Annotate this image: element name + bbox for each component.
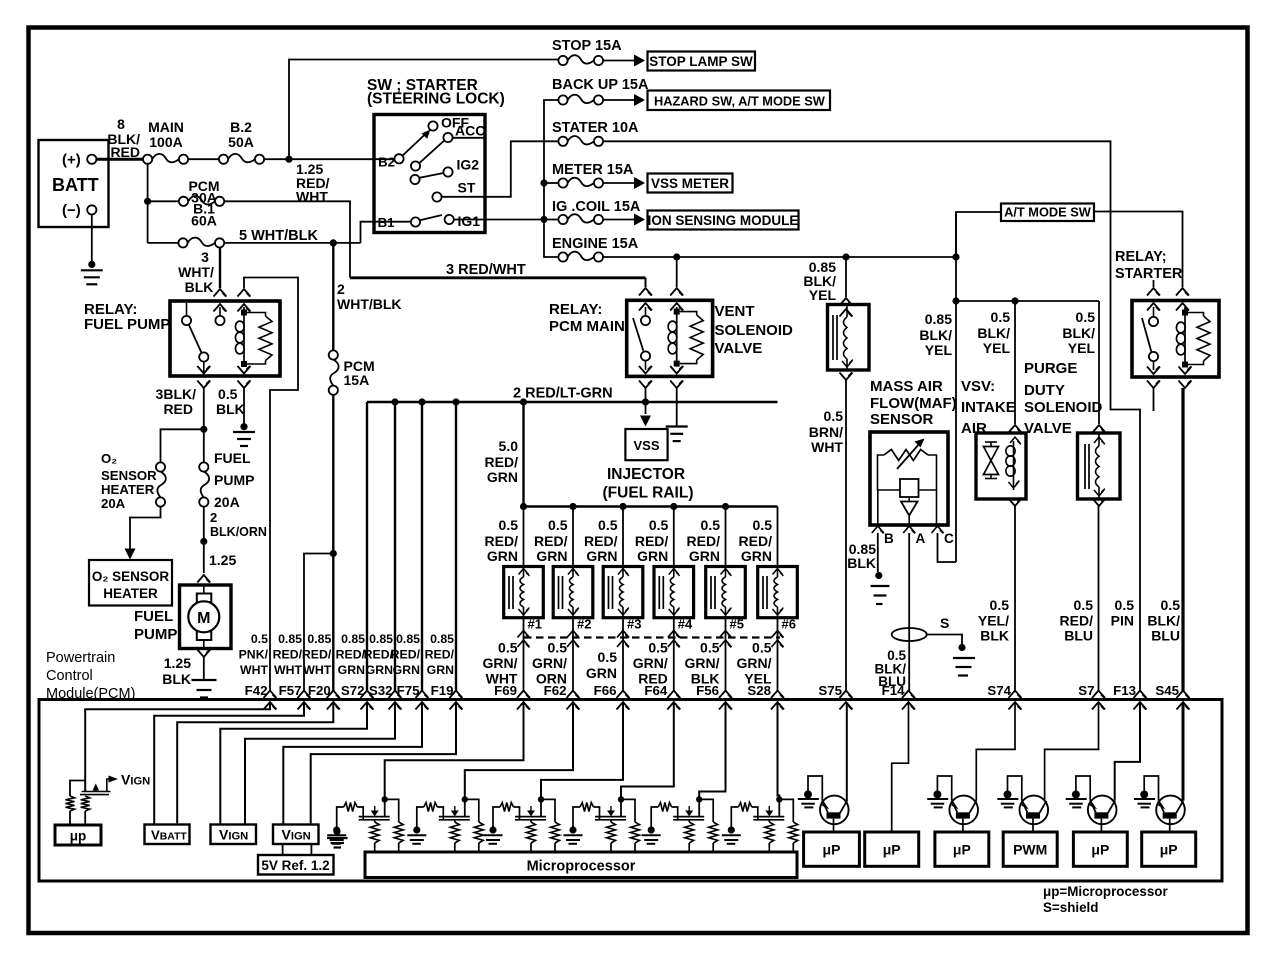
- svg-text:μp=Microprocessor: μp=Microprocessor: [1043, 884, 1168, 899]
- wire 2 WHT/BLK: [332, 243, 334, 351]
- svg-text:BLK: BLK: [980, 628, 1009, 644]
- resistor uP pullup left: [66, 796, 75, 811]
- svg-text:F20: F20: [308, 683, 331, 698]
- pin purge bottom: [1093, 499, 1106, 507]
- pin F62: [567, 691, 580, 699]
- svg-text:STOP LAMP SW: STOP LAMP SW: [649, 54, 753, 69]
- wire purge feed 0.5 BLK/YEL: [1098, 301, 1100, 424]
- wire 3 RED/WHT: [350, 276, 646, 279]
- svg-text:RED/: RED/: [364, 648, 394, 662]
- svg-text:RED/: RED/: [336, 648, 366, 662]
- svg-text:FLOW(MAF): FLOW(MAF): [870, 395, 957, 412]
- svg-text:2 RED/LT-GRN: 2 RED/LT-GRN: [513, 386, 613, 402]
- wire 0.5 RED/BLU to S7: [1098, 506, 1100, 691]
- svg-text:BLK/: BLK/: [1062, 325, 1095, 341]
- box STOP LAMP SW: [648, 52, 756, 71]
- junction vsv tap: [1011, 297, 1018, 304]
- wire F19 riser: [455, 402, 457, 691]
- svg-text:F13: F13: [1113, 683, 1136, 698]
- pin S28: [771, 691, 784, 699]
- pin S72: [361, 691, 374, 699]
- svg-text:μP: μP: [1160, 842, 1178, 858]
- svg-text:BLK: BLK: [216, 401, 245, 417]
- junction main feed node: [285, 156, 292, 163]
- svg-text:#4: #4: [678, 617, 693, 632]
- svg-text:GRN/: GRN/: [737, 655, 772, 671]
- svg-text:μP: μP: [1091, 842, 1109, 858]
- svg-text:μP: μP: [953, 842, 971, 858]
- svg-text:YEL/: YEL/: [978, 613, 1009, 629]
- svg-text:0.85: 0.85: [278, 632, 302, 646]
- svg-text:ST: ST: [458, 180, 476, 196]
- svg-text:Powertrain: Powertrain: [46, 650, 115, 666]
- box microprocessor output 4: [1003, 832, 1057, 866]
- svg-text:VSS: VSS: [633, 438, 659, 453]
- svg-text:VALVE: VALVE: [715, 340, 763, 357]
- svg-text:0.5: 0.5: [1074, 597, 1094, 613]
- svg-text:100A: 100A: [149, 134, 182, 150]
- svg-text:SENSOR: SENSOR: [870, 411, 934, 428]
- svg-text:0.5: 0.5: [1115, 597, 1135, 613]
- svg-text:8: 8: [117, 116, 125, 132]
- svg-text:WHT/: WHT/: [178, 264, 214, 280]
- svg-text:STOP 15A: STOP 15A: [552, 38, 622, 54]
- wire S32 internal: [245, 703, 395, 825]
- injector #1: [504, 567, 544, 618]
- pin F66: [617, 691, 630, 699]
- ground VIGN2: [333, 828, 340, 835]
- svg-text:GRN/: GRN/: [633, 655, 668, 671]
- wire motor to ground 1.25 BLK: [203, 657, 205, 680]
- wire F56 internal: [699, 703, 725, 797]
- pin S32: [389, 691, 402, 699]
- svg-text:HEATER: HEATER: [103, 586, 158, 601]
- svg-text:VALVE: VALVE: [1024, 420, 1072, 437]
- box HAZARD SW A/T MODE SW: [648, 91, 831, 111]
- svg-text:0.85: 0.85: [925, 311, 952, 327]
- svg-text:RED/: RED/: [485, 533, 519, 549]
- svg-text:BLK: BLK: [847, 555, 876, 571]
- svg-text:0.85: 0.85: [341, 632, 365, 646]
- svg-text:RED/: RED/: [302, 648, 332, 662]
- pin F13: [1134, 691, 1147, 699]
- ground fuel pump motor: [192, 679, 217, 681]
- ground MAF B: [875, 572, 882, 579]
- svg-text:HEATER: HEATER: [101, 482, 155, 497]
- svg-text:BLK/ORN: BLK/ORN: [210, 525, 267, 539]
- junction fuel pump node: [200, 538, 207, 545]
- svg-text:0.5: 0.5: [598, 517, 618, 533]
- svg-text:IG .COIL 15A: IG .COIL 15A: [552, 199, 641, 215]
- svg-text:GRN/: GRN/: [483, 655, 518, 671]
- wire injector 1 feed: [523, 507, 525, 567]
- wire 0.5 BLK/BLU to S45: [1181, 388, 1184, 691]
- relay starter coil: [1184, 307, 1186, 365]
- wire A/T mode sw left: [956, 212, 1001, 257]
- svg-text:DUTY: DUTY: [1024, 382, 1065, 399]
- svg-text:PCM MAIN: PCM MAIN: [549, 318, 625, 335]
- svg-text:μP: μP: [823, 842, 841, 858]
- svg-text:GRN: GRN: [338, 663, 365, 677]
- svg-text:1.25: 1.25: [164, 655, 191, 671]
- wire MAF B 0.85 BLK to ground: [877, 533, 879, 572]
- svg-text:FUEL PUMP: FUEL PUMP: [84, 316, 170, 333]
- svg-text:0.5: 0.5: [498, 640, 518, 656]
- wire fuel pump relay coil loop to F42: [244, 278, 298, 692]
- svg-text:μP: μP: [883, 842, 901, 858]
- switch symbol VIGN gate: [82, 791, 111, 793]
- pin fuel pump relay top right: [238, 289, 251, 297]
- wire S72 riser: [366, 402, 368, 691]
- svg-text:METER 15A: METER 15A: [552, 162, 634, 178]
- box VIGN 2: [273, 825, 319, 845]
- svg-text:0.5: 0.5: [548, 640, 568, 656]
- svg-text:S=shield: S=shield: [1043, 900, 1098, 915]
- pin S74: [1009, 691, 1022, 699]
- svg-text:SOLENOID: SOLENOID: [715, 322, 794, 339]
- pin MAF C: [932, 526, 944, 533]
- svg-text:Microprocessor: Microprocessor: [527, 859, 636, 875]
- resistor uP pullup right: [81, 796, 90, 811]
- wire VIGN2 to 5V ref: [282, 844, 284, 855]
- svg-text:S32: S32: [369, 683, 393, 698]
- wire S45 internal: [1182, 703, 1185, 801]
- svg-text:BLU: BLU: [1064, 628, 1093, 644]
- svg-text:0.5: 0.5: [499, 517, 519, 533]
- svg-text:WHT: WHT: [240, 663, 268, 677]
- wire A/T mode sw right to starter relay: [1094, 212, 1183, 288]
- svg-text:GRN: GRN: [637, 548, 668, 564]
- svg-text:M: M: [197, 610, 210, 627]
- wire IG1 to fuse bus: [454, 219, 559, 221]
- svg-text:GRN: GRN: [487, 469, 518, 485]
- wire F75 riser: [421, 402, 423, 691]
- pin pcm main relay top right: [670, 288, 683, 296]
- svg-text:0.5: 0.5: [218, 386, 238, 402]
- svg-text:3 RED/WHT: 3 RED/WHT: [446, 262, 526, 278]
- junction injector 4 tap: [670, 503, 677, 510]
- injector driver cell 6: [722, 796, 798, 852]
- svg-text:INJECTOR: INJECTOR: [607, 466, 685, 483]
- wire branch to F57: [304, 554, 333, 692]
- svg-text:MASS AIR: MASS AIR: [870, 378, 943, 395]
- wire injector 4 to PCM: [673, 618, 675, 691]
- svg-text:RELAY;: RELAY;: [1115, 249, 1167, 265]
- dashed fuel rail ganging line: [524, 636, 780, 638]
- svg-text:BLK: BLK: [162, 671, 191, 687]
- junction riser top: [520, 398, 527, 405]
- svg-text:μp: μp: [70, 829, 87, 844]
- wire F13 internal: [1115, 703, 1140, 801]
- svg-text:(FUEL RAIL): (FUEL RAIL): [603, 485, 694, 502]
- wire starter relay bottom left stub: [1153, 388, 1155, 411]
- svg-text:YEL: YEL: [983, 340, 1011, 356]
- pin MAF B: [872, 526, 884, 533]
- PCM box: [39, 700, 1222, 882]
- junction METER row: [540, 179, 547, 186]
- box microprocessor output 5: [1073, 832, 1127, 866]
- svg-text:IG1: IG1: [458, 213, 481, 229]
- relay starter box: [1132, 301, 1219, 378]
- svg-text:GRN: GRN: [487, 548, 518, 564]
- svg-text:HAZARD SW, A/T MODE SW: HAZARD SW, A/T MODE SW: [654, 94, 826, 109]
- svg-text:0.85: 0.85: [369, 632, 393, 646]
- svg-text:FUEL: FUEL: [134, 608, 173, 625]
- wire stub starter relay switch input: [1153, 280, 1155, 287]
- svg-text:S72: S72: [341, 683, 365, 698]
- svg-text:S45: S45: [1155, 683, 1179, 698]
- relay pcm main coil: [676, 307, 678, 365]
- wire MAIN fuse to B.2 fuse: [188, 158, 219, 160]
- svg-text:#3: #3: [627, 617, 641, 632]
- transistor Q S7: [997, 776, 1048, 832]
- svg-text:RED: RED: [110, 144, 140, 160]
- wire 3 WHT/BLK drop to fuel pump relay: [219, 248, 221, 289]
- pin fuel pump relay bottom right: [238, 366, 251, 374]
- junction F19 riser: [452, 398, 459, 405]
- pin F57: [298, 691, 311, 699]
- svg-text:BLK/: BLK/: [977, 325, 1010, 341]
- svg-text:S74: S74: [987, 683, 1011, 698]
- svg-text:20A: 20A: [214, 494, 240, 510]
- svg-text:B1: B1: [378, 215, 395, 230]
- svg-text:RED/: RED/: [391, 648, 421, 662]
- svg-text:WHT/BLK: WHT/BLK: [337, 296, 402, 312]
- pin solenoid bottom: [840, 373, 853, 381]
- svg-text:RED/: RED/: [584, 533, 618, 549]
- svg-text:0.85: 0.85: [396, 632, 420, 646]
- svg-text:0.5: 0.5: [1076, 309, 1096, 325]
- svg-text:SENSOR: SENSOR: [101, 468, 157, 483]
- wire F14 internal: [892, 703, 909, 832]
- svg-text:S7: S7: [1078, 683, 1094, 698]
- box A/T MODE SW: [1001, 204, 1094, 222]
- switch blade B1 open: [420, 215, 442, 220]
- transistor Q F13: [1066, 776, 1117, 832]
- junction O2 heater branch: [200, 426, 207, 433]
- svg-text:B: B: [884, 531, 894, 546]
- svg-text:2: 2: [210, 510, 217, 525]
- wire F66 internal: [541, 703, 623, 797]
- svg-text:BLK: BLK: [185, 279, 214, 295]
- wire injector 2 to PCM: [572, 618, 574, 691]
- pin fuel pump relay top left: [214, 289, 227, 297]
- svg-text:5.0: 5.0: [499, 438, 519, 454]
- wire injector 2 feed: [572, 507, 574, 567]
- wire 5 WHT/BLK: [224, 242, 360, 244]
- arrow to VSS: [645, 402, 647, 414]
- wire F75 internal: [283, 703, 422, 825]
- svg-text:1.25: 1.25: [209, 552, 236, 568]
- injector #3: [603, 567, 643, 618]
- wire BACK UP fuse to hazard sw: [603, 99, 634, 101]
- ground shield: [958, 644, 965, 651]
- switch blade D to ACC: [419, 141, 444, 164]
- svg-text:0.5: 0.5: [701, 517, 721, 533]
- switch blade E to IG2: [419, 173, 443, 178]
- svg-text:2: 2: [337, 281, 345, 297]
- wire vsv purge feed bus: [956, 300, 1099, 302]
- wire fuel pump relay switched output: [203, 388, 205, 462]
- ground battery: [88, 261, 95, 268]
- shield ellipse: [892, 628, 927, 641]
- svg-text:F56: F56: [696, 683, 719, 698]
- MAF amplifier triangle: [908, 497, 910, 501]
- svg-text:50A: 50A: [228, 134, 254, 150]
- svg-text:(STEERING LOCK): (STEERING LOCK): [367, 91, 505, 108]
- svg-text:15A: 15A: [344, 372, 370, 388]
- svg-text:0.5: 0.5: [700, 640, 720, 656]
- box 5V Ref 1.2: [258, 855, 334, 875]
- svg-text:PNK/: PNK/: [239, 648, 269, 662]
- svg-text:WHT: WHT: [303, 663, 331, 677]
- pin pcm main relay bottom right: [670, 366, 683, 374]
- relay fuel pump switch: [186, 303, 188, 316]
- svg-text:GRN: GRN: [689, 548, 720, 564]
- svg-text:#6: #6: [782, 617, 796, 632]
- junction MAF feed tap: [952, 253, 959, 260]
- node VIGN tap: [107, 779, 109, 792]
- fuse PCM 15A: [329, 350, 338, 359]
- relay fuel pump coil: [243, 307, 245, 365]
- svg-text:0.5: 0.5: [648, 640, 668, 656]
- svg-text:INTAKE: INTAKE: [961, 399, 1016, 416]
- svg-text:(−): (−): [62, 202, 81, 219]
- pin F69: [517, 691, 530, 699]
- pin starter relay top left: [1147, 288, 1160, 296]
- wire MAIN fuse branch down: [147, 164, 149, 243]
- pin S7: [1092, 691, 1105, 699]
- wire injector 4 feed: [673, 507, 675, 567]
- svg-text:RED/: RED/: [635, 533, 669, 549]
- svg-text:BLK/: BLK/: [919, 327, 952, 343]
- svg-text:O₂: O₂: [101, 451, 117, 466]
- box microprocessor output 3: [935, 832, 989, 866]
- pin F14: [902, 691, 915, 699]
- wire battery positive to MAIN fuse: [96, 158, 143, 161]
- wire F19 internal: [311, 703, 456, 825]
- wire vent coil feed down: [676, 257, 678, 287]
- wire F42 internal: [85, 703, 270, 791]
- junction MAF power: [952, 297, 959, 304]
- wire MAF power 0.85 BLK/YEL: [955, 212, 957, 562]
- battery BATT: [39, 140, 109, 227]
- pin F64: [667, 691, 680, 699]
- svg-text:S28: S28: [747, 683, 771, 698]
- svg-text:C: C: [944, 531, 954, 546]
- wire vsv feed 0.5 BLK/YEL: [1014, 301, 1016, 424]
- svg-text:#2: #2: [577, 617, 591, 632]
- wire vent coil to ground: [676, 388, 678, 426]
- relay starter switch: [1153, 307, 1155, 317]
- MAF internal element: [878, 455, 901, 490]
- svg-text:WHT: WHT: [811, 439, 843, 455]
- svg-text:IG2: IG2: [457, 157, 480, 173]
- svg-text:PUMP: PUMP: [134, 626, 177, 643]
- svg-text:VENT: VENT: [715, 303, 755, 320]
- vsv coil: [1013, 441, 1015, 490]
- svg-text:RED/: RED/: [425, 648, 455, 662]
- svg-text:#1: #1: [528, 617, 542, 632]
- svg-text:STATER 10A: STATER 10A: [552, 120, 639, 136]
- transistor Q S45: [1134, 776, 1185, 832]
- svg-text:RED: RED: [163, 401, 193, 417]
- svg-text:BLK/: BLK/: [1147, 613, 1180, 629]
- svg-text:GRN: GRN: [536, 548, 567, 564]
- wire fuel pump fuse to motor 2 BLK/ORN: [203, 507, 205, 573]
- svg-text:F57: F57: [279, 683, 302, 698]
- box ION SENSING MODULE: [648, 211, 799, 230]
- svg-text:0.5: 0.5: [649, 517, 669, 533]
- pin F20: [327, 691, 340, 699]
- fuse FUEL PUMP 20A: [199, 462, 208, 471]
- svg-text:3: 3: [201, 249, 209, 265]
- injector driver cell 3: [484, 796, 560, 852]
- box VSS METER: [648, 174, 733, 193]
- wire injector 1 to PCM: [523, 618, 525, 691]
- svg-text:RED/: RED/: [273, 648, 303, 662]
- wire injector 5 feed: [725, 507, 727, 567]
- svg-text:YEL: YEL: [1068, 340, 1096, 356]
- box microprocessor output 2: [865, 832, 919, 866]
- pin starter relay bottom right: [1179, 367, 1192, 375]
- wire 0.5 YEL/BLK to S74: [1014, 506, 1016, 691]
- junction injector 3 tap: [619, 503, 626, 510]
- wire MAF C feed: [938, 533, 957, 562]
- svg-text:PIN: PIN: [1111, 613, 1134, 629]
- svg-text:BATT: BATT: [52, 175, 99, 195]
- svg-text:FUEL: FUEL: [214, 450, 251, 466]
- svg-text:BACK UP 15A: BACK UP 15A: [552, 77, 649, 93]
- wire shield to ground: [927, 635, 962, 645]
- wire ST to STATER fuse: [442, 141, 559, 197]
- pin S45: [1177, 691, 1190, 699]
- box VSS: [625, 429, 667, 460]
- svg-text:Control: Control: [46, 668, 93, 684]
- box microprocessor output 1: [804, 832, 860, 866]
- svg-text:0.5: 0.5: [753, 517, 773, 533]
- svg-text:F14: F14: [882, 683, 906, 698]
- svg-text:BRN/: BRN/: [809, 424, 843, 440]
- relay fuel pump coil resistor: [247, 313, 266, 317]
- pin fuel pump motor bottom: [197, 650, 210, 658]
- junction F75 riser: [418, 398, 425, 405]
- injector #2: [553, 567, 593, 618]
- svg-text:B2: B2: [378, 155, 395, 170]
- wire S74 internal: [976, 703, 1015, 801]
- svg-text:GRN: GRN: [586, 665, 617, 681]
- svg-text:0.5: 0.5: [752, 640, 772, 656]
- solenoid valve unnamed: [828, 305, 870, 371]
- svg-text:F64: F64: [644, 683, 668, 698]
- ground vent coil: [666, 425, 688, 427]
- wire STOP fuse to stop lamp sw: [603, 60, 634, 62]
- pin fuel pump relay bottom left: [197, 366, 210, 374]
- svg-text:ION SENSING MODULE: ION SENSING MODULE: [648, 213, 799, 228]
- terminal ACC: [443, 133, 452, 142]
- switch blade B2 to OFF with arrow: [403, 133, 427, 156]
- junction VSS tap: [642, 398, 649, 405]
- pin pcm main relay top left: [639, 288, 652, 296]
- svg-text:0.5: 0.5: [598, 649, 618, 665]
- wire F57 internal: [154, 703, 304, 825]
- wire injector rail bus: [524, 505, 778, 507]
- wire solenoid feed: [845, 257, 847, 297]
- pin F75: [416, 691, 429, 699]
- svg-text:GRN: GRN: [366, 663, 393, 677]
- wire riser 5.0 RED/GRN: [522, 402, 524, 507]
- svg-text:(+): (+): [62, 152, 81, 169]
